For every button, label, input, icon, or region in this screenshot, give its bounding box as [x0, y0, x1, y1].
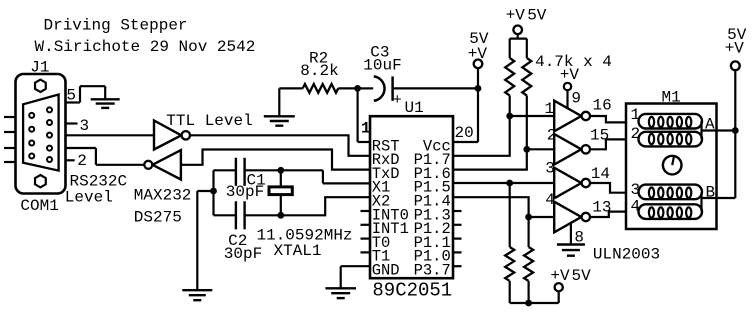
- svg-text:2: 2: [77, 152, 87, 170]
- svg-text:4: 4: [545, 191, 555, 209]
- svg-text:ULN2003: ULN2003: [593, 246, 660, 264]
- svg-text:30pF: 30pF: [224, 245, 262, 263]
- svg-text:+V: +V: [550, 267, 570, 285]
- svg-text:1: 1: [545, 100, 555, 118]
- svg-text:30pF: 30pF: [226, 183, 264, 201]
- svg-text:W.Sirichote 29 Nov 2542: W.Sirichote 29 Nov 2542: [35, 38, 256, 56]
- svg-text:+: +: [393, 92, 402, 109]
- svg-text:1: 1: [631, 106, 641, 124]
- svg-text:3: 3: [80, 117, 90, 135]
- svg-text:COM1: COM1: [20, 197, 58, 215]
- svg-text:89C2051: 89C2051: [372, 280, 452, 302]
- svg-text:3: 3: [545, 160, 555, 178]
- svg-text:5V: 5V: [572, 267, 592, 285]
- svg-text:5V: 5V: [527, 7, 547, 25]
- svg-text:B: B: [706, 184, 716, 202]
- svg-text:Driving Stepper: Driving Stepper: [44, 17, 188, 35]
- svg-text:3: 3: [631, 181, 641, 199]
- svg-text:14: 14: [591, 165, 610, 183]
- svg-text:4: 4: [631, 198, 641, 216]
- svg-text:P3.7: P3.7: [414, 262, 451, 280]
- svg-text:+V: +V: [506, 7, 526, 25]
- svg-text:TTL Level: TTL Level: [166, 112, 252, 130]
- svg-text:16: 16: [593, 96, 612, 114]
- svg-text:5: 5: [66, 86, 76, 104]
- svg-text:13: 13: [592, 199, 611, 217]
- svg-text:8: 8: [574, 228, 584, 246]
- svg-text:2: 2: [547, 127, 557, 145]
- svg-text:20: 20: [455, 124, 474, 142]
- svg-text:+V: +V: [560, 66, 580, 84]
- svg-text:8.2k: 8.2k: [300, 62, 338, 80]
- svg-text:U1: U1: [405, 99, 424, 117]
- svg-text:10uF: 10uF: [363, 57, 401, 75]
- svg-text:XTAL1: XTAL1: [274, 242, 322, 260]
- svg-text:DS275: DS275: [134, 209, 182, 227]
- svg-text:2: 2: [631, 125, 641, 143]
- svg-text:9: 9: [571, 90, 581, 108]
- svg-text:Level: Level: [65, 189, 113, 207]
- svg-text:MAX232: MAX232: [134, 187, 192, 205]
- svg-text:+V: +V: [725, 40, 745, 58]
- svg-text:GND: GND: [372, 262, 400, 280]
- svg-text:15: 15: [590, 127, 609, 145]
- svg-text:A: A: [705, 116, 715, 134]
